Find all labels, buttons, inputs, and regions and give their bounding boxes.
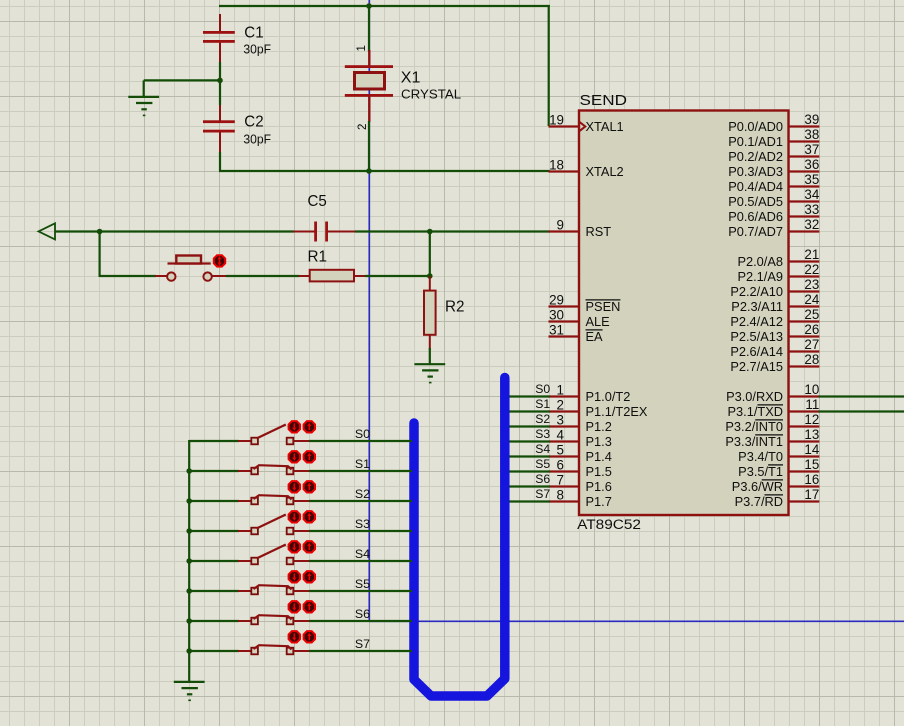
node S0 (at U1) bbox=[535, 382, 550, 396]
switch S1 toggle markers bbox=[289, 451, 315, 462]
svg-text:ALE: ALE bbox=[586, 314, 610, 329]
svg-text:P0.0/AD0: P0.0/AD0 bbox=[728, 119, 783, 134]
push button bbox=[167, 256, 212, 281]
svg-text:16: 16 bbox=[804, 472, 819, 487]
wire R1 to junction bbox=[365, 275, 431, 277]
switch S6 toggle markers bbox=[289, 601, 315, 612]
crystal X1 body bbox=[355, 73, 385, 90]
switch S7 toggle markers bbox=[289, 631, 315, 642]
U1 pin 33 P0.6/AD6 bbox=[728, 202, 819, 224]
svg-text:S0: S0 bbox=[355, 427, 370, 441]
wire S6 to bus bbox=[309, 620, 412, 622]
U1 pin 21 P2.0/A8 bbox=[737, 247, 819, 269]
svg-text:P2.2/A10: P2.2/A10 bbox=[730, 284, 783, 299]
label C2 bbox=[244, 113, 263, 130]
wire S7 to bus bbox=[309, 650, 412, 652]
U1 pin 34 P0.5/AD5 bbox=[728, 187, 820, 209]
junction rail S3 bbox=[186, 528, 192, 534]
node S5 (at U1) bbox=[535, 457, 550, 471]
wire S4 to bus bbox=[309, 560, 412, 562]
svg-text:33: 33 bbox=[804, 202, 819, 217]
svg-text:11: 11 bbox=[805, 397, 819, 412]
U1 pin 31 EA bbox=[549, 323, 604, 344]
U1 pin 15 P3.5/T1 bbox=[738, 457, 819, 479]
U1 pin 18 XTAL2 bbox=[549, 158, 624, 179]
capacitor C1 bbox=[203, 14, 235, 66]
svg-text:34: 34 bbox=[804, 187, 819, 202]
wire P3.1/TXD out bbox=[819, 410, 904, 412]
svg-text:S1: S1 bbox=[535, 397, 550, 411]
node S5 bbox=[355, 577, 370, 591]
svg-text:P0.6/AD6: P0.6/AD6 bbox=[728, 209, 783, 224]
svg-text:39: 39 bbox=[804, 112, 819, 127]
crystal X1 pins/plates bbox=[345, 50, 393, 122]
svg-text:EA: EA bbox=[586, 329, 604, 344]
svg-text:S2: S2 bbox=[535, 412, 550, 426]
button toggle marker bbox=[214, 255, 225, 266]
U1 pin 12 P3.2/INT0 bbox=[725, 412, 819, 434]
U1 pin 6 P1.5 bbox=[549, 458, 612, 479]
value 30pF bbox=[243, 133, 271, 147]
svg-text:36: 36 bbox=[804, 157, 819, 172]
switch S4 bbox=[238, 545, 310, 565]
svg-text:P0.2/AD2: P0.2/AD2 bbox=[728, 149, 783, 164]
wire button branch bbox=[100, 232, 156, 278]
U1 pin 16 P3.6/WR bbox=[732, 472, 820, 494]
svg-text:S7: S7 bbox=[355, 637, 370, 651]
svg-text:S4: S4 bbox=[535, 442, 550, 456]
terminal arrow (default input) bbox=[39, 223, 56, 239]
U1 pin 22 P2.1/A9 bbox=[737, 262, 819, 284]
svg-text:27: 27 bbox=[804, 337, 819, 352]
U1 pin 8 P1.7 bbox=[549, 488, 612, 509]
svg-text:S7: S7 bbox=[535, 487, 550, 501]
svg-text:3: 3 bbox=[557, 413, 564, 428]
svg-text:S3: S3 bbox=[355, 517, 370, 531]
switch S1 bbox=[238, 465, 310, 474]
svg-text:P3.5/T1: P3.5/T1 bbox=[738, 464, 783, 479]
svg-text:22: 22 bbox=[804, 262, 819, 277]
wire rail to S5 switch bbox=[189, 590, 239, 592]
junction C1-C2 bbox=[217, 78, 223, 84]
svg-text:P2.5/A13: P2.5/A13 bbox=[730, 329, 783, 344]
svg-text:25: 25 bbox=[804, 307, 819, 322]
svg-text:10: 10 bbox=[804, 382, 819, 397]
wire S1 to bus bbox=[309, 470, 412, 472]
label X1 bbox=[401, 70, 421, 87]
svg-text:24: 24 bbox=[804, 292, 819, 307]
wire S5 to bus bbox=[309, 590, 412, 592]
svg-text:18: 18 bbox=[549, 158, 564, 173]
node S6 (at U1) bbox=[535, 472, 550, 486]
svg-text:P1.5: P1.5 bbox=[586, 464, 612, 479]
op-amp U1 body (AT89C52 IC) bbox=[579, 111, 789, 516]
svg-text:S6: S6 bbox=[535, 472, 550, 486]
wire rail to S3 switch bbox=[189, 530, 239, 532]
junction RST branch bbox=[97, 229, 103, 235]
node S2 bbox=[355, 487, 370, 501]
wire bottom rail bbox=[219, 152, 550, 171]
switch S6 bbox=[238, 615, 310, 624]
wire top rail bbox=[219, 5, 550, 7]
svg-text:X1: X1 bbox=[401, 70, 421, 87]
svg-text:35: 35 bbox=[804, 172, 819, 187]
svg-text:P3.6/WR: P3.6/WR bbox=[732, 479, 783, 494]
svg-text:P3.0/RXD: P3.0/RXD bbox=[726, 389, 783, 404]
svg-text:12: 12 bbox=[804, 412, 819, 427]
svg-text:P1.7: P1.7 bbox=[586, 494, 612, 509]
wire bus to P1.2 bbox=[506, 425, 550, 427]
U1 pin 4 P1.3 bbox=[549, 428, 612, 449]
svg-text:P1.1/T2EX: P1.1/T2EX bbox=[586, 404, 648, 419]
U1 pin 37 P0.2/AD2 bbox=[728, 142, 819, 164]
U1 pin 23 P2.2/A10 bbox=[730, 277, 819, 299]
svg-text:P3.4/T0: P3.4/T0 bbox=[738, 449, 783, 464]
wire rail to S0 switch bbox=[189, 440, 239, 442]
node S7 bbox=[355, 637, 370, 651]
value 30pF bbox=[243, 43, 271, 57]
graphic line vertical (blue) bbox=[368, 0, 370, 621]
node S1 (at U1) bbox=[535, 397, 550, 411]
U1 pin 13 P3.3/INT1 bbox=[725, 427, 819, 449]
U1 pin 17 P3.7/RD bbox=[735, 487, 820, 509]
svg-text:8: 8 bbox=[557, 488, 564, 503]
junction rail S2 bbox=[186, 498, 192, 504]
svg-text:19: 19 bbox=[549, 113, 564, 128]
switch S7 bbox=[238, 645, 310, 654]
wire bus to P1.0 bbox=[506, 395, 550, 397]
wire C1-C2 bbox=[219, 62, 221, 105]
svg-text:1: 1 bbox=[356, 45, 368, 51]
svg-text:7: 7 bbox=[557, 473, 564, 488]
resistor R1 bbox=[299, 270, 366, 282]
wire bus to P1.7 bbox=[506, 500, 550, 502]
wire P3.0/RXD out bbox=[819, 395, 904, 397]
junction rail S7 bbox=[186, 648, 192, 654]
svg-text:21: 21 bbox=[804, 247, 819, 262]
svg-text:S1: S1 bbox=[355, 457, 370, 471]
svg-text:30: 30 bbox=[549, 308, 564, 323]
svg-text:P2.0/A8: P2.0/A8 bbox=[737, 254, 783, 269]
X1 pin number 1 bbox=[356, 45, 368, 51]
svg-text:P3.1/TXD: P3.1/TXD bbox=[728, 404, 783, 419]
U1 pin 27 P2.6/A14 bbox=[730, 337, 819, 359]
wire rail to S2 switch bbox=[189, 500, 239, 502]
svg-text:17: 17 bbox=[804, 487, 819, 502]
wire crystal top bbox=[368, 6, 370, 52]
ground (C1/C2) bbox=[128, 97, 159, 116]
svg-text:CRYSTAL: CRYSTAL bbox=[401, 87, 461, 102]
label C1 bbox=[244, 25, 263, 42]
svg-text:P0.3/AD3: P0.3/AD3 bbox=[728, 164, 783, 179]
junction R1/R2 bbox=[427, 273, 433, 279]
svg-text:P3.3/INT1: P3.3/INT1 bbox=[725, 434, 783, 449]
svg-text:S4: S4 bbox=[355, 547, 370, 561]
svg-text:P3.7/RD: P3.7/RD bbox=[735, 494, 783, 509]
U1 pin 36 P0.3/AD3 bbox=[728, 157, 819, 179]
node S3 (at U1) bbox=[535, 427, 550, 441]
wire bus to P1.1 bbox=[506, 410, 550, 412]
junction rail S5 bbox=[186, 588, 192, 594]
U1 pin 10 P3.0/RXD bbox=[726, 382, 819, 404]
wire S3 to bus bbox=[309, 530, 412, 532]
label AT89C52 bbox=[577, 517, 641, 532]
ground (switches) bbox=[174, 682, 205, 700]
node S4 (at U1) bbox=[535, 442, 550, 456]
U1 pin 32 P0.7/AD7 bbox=[728, 217, 819, 239]
U1 pin 35 P0.4/AD4 bbox=[728, 172, 819, 194]
U1 pin 19 XTAL1 bbox=[549, 113, 624, 134]
label R1 bbox=[308, 249, 328, 266]
svg-text:38: 38 bbox=[804, 127, 819, 142]
svg-text:S2: S2 bbox=[355, 487, 370, 501]
svg-text:S0: S0 bbox=[535, 382, 550, 396]
svg-text:P0.5/AD5: P0.5/AD5 bbox=[728, 194, 783, 209]
U1 pin 2 P1.1/T2EX bbox=[549, 398, 648, 419]
svg-text:P0.4/AD4: P0.4/AD4 bbox=[728, 179, 783, 194]
wire button left pin bbox=[155, 275, 167, 277]
bus wire (blue) bbox=[414, 378, 505, 697]
wire R2 to ground bbox=[429, 348, 431, 364]
svg-text:P0.7/AD7: P0.7/AD7 bbox=[728, 224, 783, 239]
svg-text:C1: C1 bbox=[244, 25, 263, 42]
svg-text:2: 2 bbox=[357, 124, 369, 130]
node S1 bbox=[355, 457, 370, 471]
svg-text:37: 37 bbox=[804, 142, 819, 157]
wire XTAL1 drop bbox=[548, 5, 550, 126]
node S3 bbox=[355, 517, 370, 531]
svg-text:15: 15 bbox=[804, 457, 819, 472]
svg-text:S5: S5 bbox=[355, 577, 370, 591]
graphic line horizontal (blue) bbox=[369, 620, 904, 622]
label R2 bbox=[445, 299, 465, 316]
node S6 bbox=[355, 607, 370, 621]
wire bus to P1.4 bbox=[506, 455, 550, 457]
switch S5 toggle markers bbox=[289, 571, 315, 582]
wire rail to S6 switch bbox=[189, 620, 239, 622]
svg-text:4: 4 bbox=[557, 428, 565, 443]
svg-text:28: 28 bbox=[804, 352, 819, 367]
switch S2 bbox=[238, 495, 310, 504]
U1 pin 30 ALE bbox=[549, 308, 610, 329]
capacitor C2 bbox=[203, 105, 235, 156]
svg-text:6: 6 bbox=[557, 458, 564, 473]
svg-text:29: 29 bbox=[549, 293, 564, 308]
svg-text:XTAL1: XTAL1 bbox=[586, 119, 624, 134]
switch S2 toggle markers bbox=[289, 481, 315, 492]
node S0 bbox=[355, 427, 370, 441]
U1 pin 9 RST bbox=[549, 218, 612, 239]
junction top rail / crystal bbox=[366, 3, 372, 9]
svg-text:P2.3/A11: P2.3/A11 bbox=[731, 299, 783, 314]
svg-text:P3.2/INT0: P3.2/INT0 bbox=[725, 419, 783, 434]
svg-text:P0.1/AD1: P0.1/AD1 bbox=[728, 134, 783, 149]
svg-text:31: 31 bbox=[549, 323, 564, 338]
svg-text:P1.3: P1.3 bbox=[586, 434, 612, 449]
svg-text:S5: S5 bbox=[535, 457, 550, 471]
U1 pin 14 P3.4/T0 bbox=[738, 442, 820, 464]
svg-text:9: 9 bbox=[557, 218, 564, 233]
junction RST vertical bbox=[427, 229, 433, 235]
wire to ground (left) bbox=[144, 80, 220, 96]
capacitor C5 bbox=[293, 222, 355, 242]
wire rail to S1 switch bbox=[189, 470, 239, 472]
wire S2 to bus bbox=[309, 500, 412, 502]
label C5 bbox=[308, 193, 327, 210]
node S2 (at U1) bbox=[535, 412, 550, 426]
node S7 (at U1) bbox=[535, 487, 550, 501]
svg-text:R2: R2 bbox=[445, 299, 465, 316]
svg-text:P1.0/T2: P1.0/T2 bbox=[586, 389, 631, 404]
U1 pin 25 P2.4/A12 bbox=[730, 307, 819, 329]
X1 pin number 2 bbox=[357, 124, 369, 130]
svg-text:P2.4/A12: P2.4/A12 bbox=[730, 314, 783, 329]
svg-text:2: 2 bbox=[557, 398, 564, 413]
svg-text:32: 32 bbox=[804, 217, 819, 232]
svg-text:30pF: 30pF bbox=[243, 43, 271, 57]
svg-text:P2.7/A15: P2.7/A15 bbox=[730, 359, 783, 374]
svg-text:PSEN: PSEN bbox=[586, 299, 621, 314]
wire S0 to bus bbox=[309, 440, 412, 442]
svg-text:1: 1 bbox=[557, 383, 564, 398]
U1 pin 38 P0.1/AD1 bbox=[728, 127, 819, 149]
U1 pin 39 P0.0/AD0 bbox=[728, 112, 819, 134]
junction rail S1 bbox=[186, 468, 192, 474]
wire RST bbox=[55, 230, 550, 232]
svg-text:P1.4: P1.4 bbox=[586, 449, 612, 464]
svg-text:5: 5 bbox=[557, 443, 564, 458]
value CRYSTAL bbox=[401, 87, 461, 102]
U1 pin 26 P2.5/A13 bbox=[730, 322, 819, 344]
U1 pin 1 P1.0/T2 bbox=[549, 383, 631, 404]
resistor R2 bbox=[424, 276, 436, 350]
switch S3 bbox=[238, 515, 310, 535]
wire rail to ground bbox=[188, 651, 190, 682]
wire button to R1 bbox=[211, 275, 300, 277]
svg-text:S6: S6 bbox=[355, 607, 370, 621]
svg-text:C2: C2 bbox=[244, 113, 263, 130]
svg-text:P1.2: P1.2 bbox=[586, 419, 612, 434]
switch S0 toggle markers bbox=[289, 421, 315, 432]
junction rail S4 bbox=[186, 558, 192, 564]
svg-text:R1: R1 bbox=[308, 249, 328, 266]
node S4 bbox=[355, 547, 370, 561]
svg-text:XTAL2: XTAL2 bbox=[586, 164, 624, 179]
wire crystal bottom bbox=[368, 121, 370, 171]
U1 pin 3 P1.2 bbox=[549, 413, 612, 434]
U1 pin 28 P2.7/A15 bbox=[730, 352, 819, 374]
switch S0 bbox=[238, 425, 310, 445]
switch S4 toggle markers bbox=[289, 541, 315, 552]
wire switch common rail bbox=[188, 440, 190, 652]
svg-text:P2.6/A14: P2.6/A14 bbox=[730, 344, 783, 359]
svg-text:RST: RST bbox=[586, 224, 612, 239]
wire RST to R2 vertical bbox=[429, 232, 431, 278]
junction bottom rail / crystal bbox=[366, 168, 372, 174]
svg-text:S3: S3 bbox=[535, 427, 550, 441]
U1 pin 11 P3.1/TXD bbox=[728, 397, 820, 419]
ground (R2) bbox=[414, 364, 445, 382]
wire bus to P1.3 bbox=[506, 440, 550, 442]
svg-text:23: 23 bbox=[804, 277, 819, 292]
switch S5 bbox=[238, 585, 310, 594]
svg-text:P2.1/A9: P2.1/A9 bbox=[737, 269, 783, 284]
wire bus to P1.6 bbox=[506, 485, 550, 487]
svg-text:P1.6: P1.6 bbox=[586, 479, 612, 494]
svg-text:13: 13 bbox=[804, 427, 819, 442]
svg-text:SEND: SEND bbox=[580, 92, 628, 109]
switch S3 toggle markers bbox=[289, 511, 315, 522]
junction rail S6 bbox=[186, 618, 192, 624]
U1 pin 29 PSEN bbox=[549, 293, 621, 314]
wire bus to P1.5 bbox=[506, 470, 550, 472]
svg-text:AT89C52: AT89C52 bbox=[577, 517, 641, 532]
svg-text:26: 26 bbox=[804, 322, 819, 337]
svg-text:14: 14 bbox=[804, 442, 819, 457]
svg-text:30pF: 30pF bbox=[243, 133, 271, 147]
U1 pin 24 P2.3/A11 bbox=[731, 292, 820, 314]
label SEND bbox=[580, 92, 628, 109]
wire rail to S7 switch bbox=[189, 650, 239, 652]
svg-text:C5: C5 bbox=[308, 193, 327, 210]
U1 pin 7 P1.6 bbox=[549, 473, 612, 494]
U1 pin 5 P1.4 bbox=[549, 443, 612, 464]
wire rail to S4 switch bbox=[189, 560, 239, 562]
